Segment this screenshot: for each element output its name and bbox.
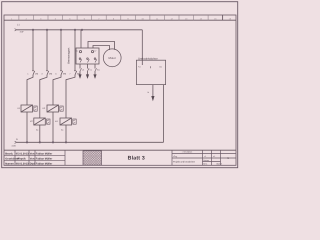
svg-text:L1: L1 [17, 24, 20, 27]
svg-text:2M: 2M [49, 73, 52, 76]
svg-text:3.0F: 3.0F [20, 31, 25, 34]
svg-text:K4: K4 [55, 120, 58, 123]
svg-text:Dipl: Dipl [30, 162, 35, 165]
svg-text:Fabian Müller: Fabian Müller [36, 162, 52, 165]
svg-text:Blatt 3: Blatt 3 [217, 163, 222, 166]
svg-text:N: N [16, 138, 18, 141]
svg-text:-Org.: -Org. [173, 155, 178, 158]
svg-text:Namen: Namen [5, 162, 14, 165]
svg-text:08.01.2013: 08.01.2013 [16, 162, 29, 165]
svg-text:Motor: Motor [109, 56, 116, 60]
svg-text:B1: B1 [160, 66, 162, 69]
svg-text:+1: +1 [213, 155, 215, 158]
svg-text:3.0B: 3.0B [12, 144, 17, 147]
svg-text:V1: V1 [90, 68, 92, 71]
svg-text:U1: U1 [82, 68, 84, 71]
svg-text:5: 5 [55, 73, 57, 76]
svg-text:Blatt 3: Blatt 3 [128, 155, 145, 161]
svg-text:W1: W1 [97, 68, 100, 71]
svg-text:--: -- [92, 157, 94, 160]
svg-text:Fabian Müller: Fabian Müller [36, 157, 52, 160]
svg-text:K1: K1 [18, 107, 21, 110]
svg-text:K2: K2 [30, 120, 33, 123]
svg-text:A1: A1 [36, 129, 39, 132]
svg-text:1V: 1V [94, 49, 97, 52]
svg-text:K3: K3 [43, 107, 46, 110]
svg-text:Von: Von [30, 152, 35, 155]
svg-text:Bremsmagnet: Bremsmagnet [68, 47, 71, 63]
svg-text:7: 7 [69, 73, 71, 76]
svg-text:Drehzahlwächter: Drehzahlwächter [138, 58, 158, 61]
svg-text:Fabian Müller: Fabian Müller [36, 152, 52, 155]
svg-text:Bearb.: Bearb. [5, 152, 13, 155]
svg-text:Projekt und bearbeiten: Projekt und bearbeiten [173, 160, 196, 163]
svg-text:+U: +U [138, 66, 141, 69]
svg-text:05.01.2013: 05.01.2013 [16, 152, 29, 155]
svg-text:Datum: Datum [203, 159, 209, 162]
svg-text:Von: Von [30, 157, 35, 160]
svg-text:4M: 4M [77, 73, 80, 76]
svg-text:1: 1 [27, 73, 29, 76]
svg-text:Physik: Physik [18, 157, 27, 160]
svg-text:1M: 1M [35, 73, 38, 76]
svg-text:M: M [148, 91, 150, 94]
svg-text:1U: 1U [75, 49, 78, 52]
svg-text:3: 3 [41, 73, 43, 76]
svg-text:A1: A1 [61, 129, 64, 132]
svg-text:= Schaltplan: = Schaltplan [182, 151, 192, 154]
svg-text:3M: 3M [63, 73, 66, 76]
svg-text:Bew.: Bew. [203, 163, 208, 166]
svg-text:=1: =1 [204, 155, 206, 158]
